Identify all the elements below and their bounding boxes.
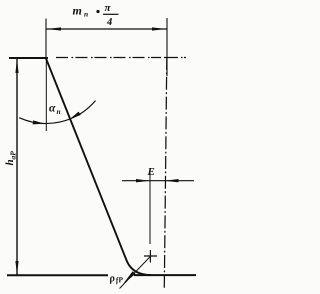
svg-text:π: π: [105, 2, 112, 14]
wire: right extension line of top dimension: [166, 18, 168, 76]
dimension line m_n*pi/4: [47, 28, 167, 30]
wire: left extension line of top dimension: [45, 19, 47, 59]
arrowhead of angle arc at vertical line: [33, 120, 45, 124]
arrowhead left of top dimension: [47, 27, 61, 30]
dimension line E: [122, 180, 194, 182]
wire: vertical dash-dot centerline (right): [164, 57, 167, 288]
svg-text:E: E: [147, 166, 155, 178]
wire: tooth flank with root fillet: [46, 59, 151, 276]
wire: bottom line right segment: [134, 274, 196, 276]
arrowhead of fillet radius leader: [123, 271, 135, 284]
angle arc alpha_n: [19, 101, 95, 124]
arrowhead left of E dimension: [136, 179, 150, 182]
node: fillet centre mark (plus): [144, 250, 157, 263]
wire: leader line of fillet radius: [120, 257, 151, 289]
svg-text:m: m: [73, 4, 82, 18]
svg-text:α: α: [49, 103, 56, 115]
wire: datum dash-dot centerline (horizontal): [56, 57, 186, 59]
fraction bar: [103, 13, 119, 15]
arrowhead bottom of h dimension: [15, 261, 18, 275]
wire: thin vertical reference below apex: [45, 59, 47, 131]
label h_aP (rotated): [4, 151, 18, 166]
svg-text:n: n: [84, 10, 88, 19]
arrowhead right of E dimension: [165, 179, 179, 182]
wire: tip line (top horizontal solid line): [9, 57, 48, 59]
svg-text:aP: aP: [9, 151, 18, 160]
dimension line h_aP (vertical, left): [16, 59, 18, 276]
arrowhead top of h dimension: [15, 59, 18, 73]
arrowhead of angle arc at flank: [70, 112, 81, 119]
arrowhead right of top dimension: [152, 27, 166, 30]
label rho_fP: [108, 272, 124, 286]
svg-text:n: n: [57, 107, 61, 116]
svg-text:4: 4: [106, 17, 112, 28]
label bullet operator: [96, 10, 99, 13]
wire: bottom line left segment: [7, 274, 108, 276]
wire: extension line from E down to fillet centre: [149, 168, 151, 244]
